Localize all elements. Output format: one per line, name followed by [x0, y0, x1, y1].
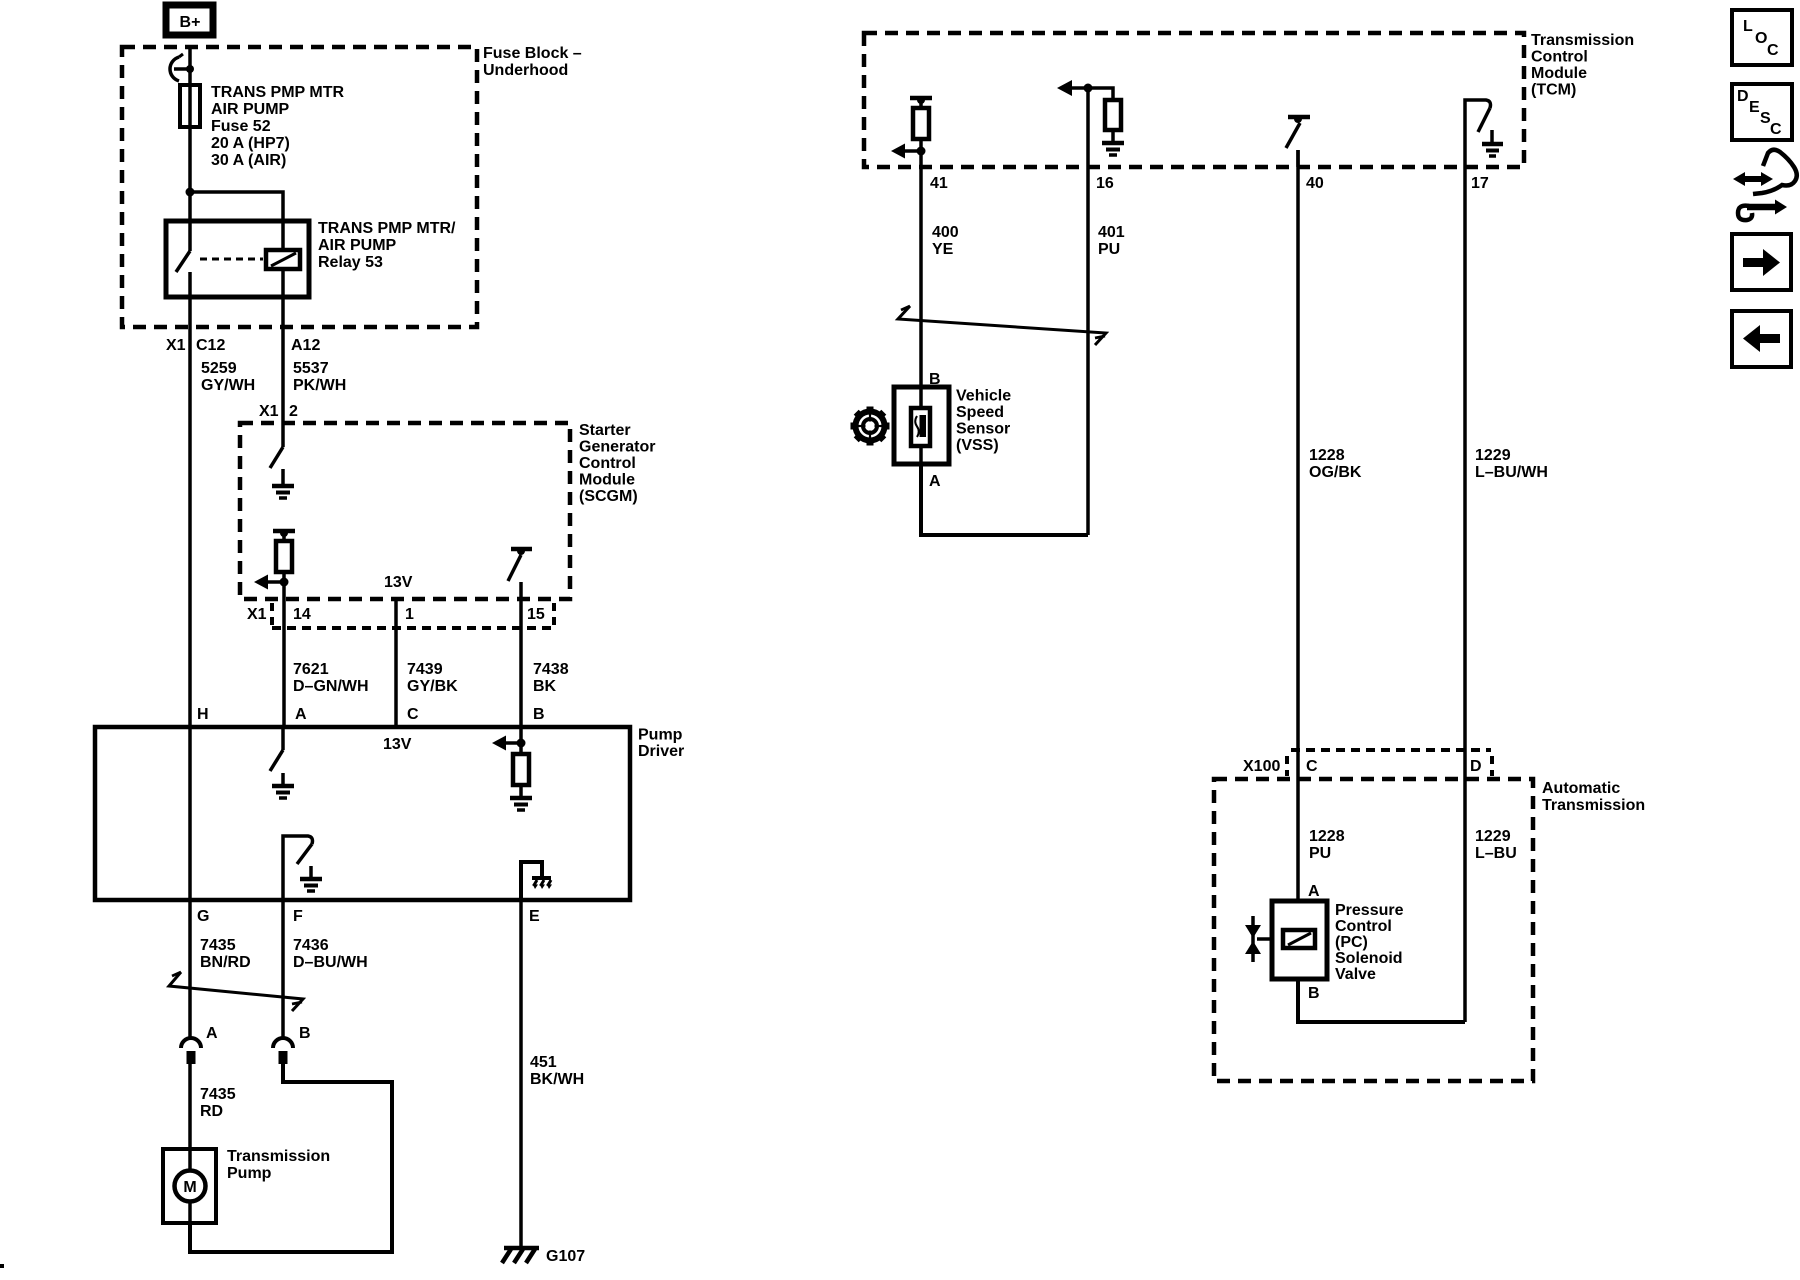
svg-text:Module: Module: [1531, 65, 1587, 82]
svg-text:1: 1: [405, 606, 414, 623]
svg-text:14: 14: [293, 606, 311, 623]
svg-text:7439: 7439: [407, 661, 443, 678]
crossing mark wires G-F: [169, 972, 303, 1011]
fuse block underhood box: [122, 45, 582, 327]
svg-text:Vehicle: Vehicle: [956, 388, 1011, 405]
wire 7436 D-BU/WH: [283, 900, 368, 1037]
svg-text:Control: Control: [579, 455, 636, 472]
pump driver case ground E: [521, 862, 552, 900]
svg-text:GY/WH: GY/WH: [201, 377, 255, 394]
junction node pin41: [917, 147, 926, 156]
svg-text:Fuse 52: Fuse 52: [211, 118, 271, 135]
icon wiring navigation: [1733, 150, 1797, 220]
svg-text:X1: X1: [247, 606, 267, 623]
fusible element clip: [170, 54, 194, 81]
svg-text:F: F: [293, 908, 303, 925]
wire 7435 RD: [190, 1064, 236, 1171]
svg-text:L–BU/WH: L–BU/WH: [1475, 464, 1548, 481]
SCGM 13V source wire: [384, 574, 413, 727]
svg-text:H: H: [197, 706, 209, 723]
svg-text:TRANS PMP MTR/: TRANS PMP MTR/: [318, 220, 456, 237]
TCM resistor pin16: [1105, 100, 1121, 143]
svg-text:E: E: [1749, 99, 1760, 116]
signal arrow SCGM output: [254, 575, 284, 590]
VSS pickup element: [911, 387, 930, 464]
svg-text:B: B: [1308, 985, 1320, 1002]
SCGM box: [240, 422, 655, 599]
ground under switch A: [272, 773, 294, 798]
svg-text:7435: 7435: [200, 937, 236, 954]
svg-text:1228: 1228: [1309, 828, 1345, 845]
wire C12 5259 GY/WH: [166, 297, 255, 727]
wire 7438 BK label: [533, 661, 569, 695]
svg-text:D–BU/WH: D–BU/WH: [293, 954, 368, 971]
icon DESC button: [1732, 84, 1792, 140]
svg-text:X1: X1: [259, 403, 279, 420]
SCGM internal supply bar: [273, 529, 295, 541]
svg-text:Driver: Driver: [638, 743, 684, 760]
svg-text:Automatic: Automatic: [1542, 780, 1620, 797]
resistor SCGM output: [276, 541, 292, 572]
svg-text:Starter: Starter: [579, 422, 631, 439]
svg-text:Relay 53: Relay 53: [318, 254, 383, 271]
svg-text:TRANS PMP MTR: TRANS PMP MTR: [211, 84, 344, 101]
svg-text:D–GN/WH: D–GN/WH: [293, 678, 369, 695]
wire 1229 L-BU/WH: [1465, 167, 1548, 1022]
svg-text:Transmission: Transmission: [1531, 32, 1634, 49]
junction node fuse output: [186, 188, 195, 197]
page mark bottom left: [0, 1264, 4, 1268]
TCM input arrow pin16: [1057, 80, 1113, 101]
solenoid return loop: [1298, 979, 1465, 1022]
svg-text:15: 15: [527, 606, 545, 623]
svg-text:Pump: Pump: [227, 1165, 272, 1182]
svg-text:13V: 13V: [384, 574, 413, 591]
svg-text:1229: 1229: [1475, 828, 1511, 845]
svg-text:AIR PUMP: AIR PUMP: [211, 101, 290, 118]
wire pin40 upper: [1296, 150, 1300, 167]
relay 53 box: [166, 220, 456, 297]
svg-text:Sensor: Sensor: [956, 421, 1010, 438]
svg-text:(SCGM): (SCGM): [579, 488, 638, 505]
inline connector pin B: [273, 1025, 311, 1064]
svg-text:1229: 1229: [1475, 447, 1511, 464]
PC solenoid coil: [1283, 930, 1315, 948]
svg-text:Module: Module: [579, 472, 635, 489]
TCM supply bar pin41: [910, 96, 932, 108]
ground inside SCGM: [272, 469, 294, 498]
ground TCM pin17: [1482, 130, 1503, 156]
svg-text:400: 400: [932, 224, 959, 241]
svg-text:OG/BK: OG/BK: [1309, 464, 1362, 481]
ground G107: [502, 1248, 585, 1265]
svg-text:AIR PUMP: AIR PUMP: [318, 237, 397, 254]
svg-text:41: 41: [930, 175, 948, 192]
wire B+ to relay: [188, 47, 192, 251]
icon next arrow button: [1732, 234, 1791, 290]
svg-text:17: 17: [1471, 175, 1489, 192]
wire branch to relay coil: [190, 192, 283, 251]
svg-text:A: A: [295, 706, 307, 723]
battery feed B+: [166, 5, 213, 35]
svg-text:Transmission: Transmission: [1542, 797, 1645, 814]
wire 7435 BN/RD: [190, 900, 251, 1037]
SCGM connector X1 strip: [247, 603, 554, 628]
inline connector pin A: [181, 1025, 218, 1064]
SCGM switch pin15: [508, 547, 532, 581]
wire 400 YE: [921, 167, 959, 387]
TCM resistor pin41: [913, 108, 929, 167]
pump driver box: [95, 727, 684, 901]
pump driver pins H A C B: [197, 706, 545, 723]
TCM switch pin40: [1286, 115, 1310, 148]
svg-text:C: C: [1770, 121, 1782, 138]
svg-text:O: O: [1755, 30, 1767, 47]
pump driver input B node and arrow: [492, 727, 526, 754]
relay switch contact: [176, 251, 190, 297]
relay actuation dashed link: [200, 258, 263, 261]
svg-text:G: G: [197, 908, 209, 925]
svg-text:2: 2: [289, 403, 298, 420]
svg-text:Speed: Speed: [956, 404, 1004, 421]
svg-text:A: A: [1308, 883, 1320, 900]
svg-text:40: 40: [1306, 175, 1324, 192]
svg-text:7436: 7436: [293, 937, 329, 954]
svg-text:BN/RD: BN/RD: [200, 954, 251, 971]
svg-text:(PC): (PC): [1335, 934, 1368, 951]
svg-text:13V: 13V: [383, 736, 412, 753]
svg-text:Control: Control: [1335, 918, 1392, 935]
svg-text:G107: G107: [546, 1248, 585, 1265]
wire 1228 PU label: [1309, 828, 1345, 862]
wire 1228 OG/BK: [1298, 150, 1362, 901]
svg-text:Solenoid: Solenoid: [1335, 950, 1403, 967]
svg-text:(TCM): (TCM): [1531, 82, 1576, 99]
wire pin15: [519, 582, 523, 727]
wire 401 PU: [1088, 167, 1125, 535]
svg-text:(VSS): (VSS): [956, 437, 999, 454]
svg-text:C: C: [1306, 758, 1318, 775]
svg-text:7621: 7621: [293, 661, 329, 678]
transmission pump box: [163, 1148, 330, 1223]
svg-text:Transmission: Transmission: [227, 1148, 330, 1165]
svg-text:5259: 5259: [201, 360, 237, 377]
signal arrow pin41: [891, 144, 921, 159]
svg-text:B: B: [533, 706, 545, 723]
svg-text:16: 16: [1096, 175, 1114, 192]
TCM switch pin17: [1465, 100, 1491, 167]
svg-text:L–BU: L–BU: [1475, 845, 1517, 862]
svg-text:Generator: Generator: [579, 439, 655, 456]
svg-text:GY/BK: GY/BK: [407, 678, 458, 695]
wire 7621 D-GN/WH label: [293, 661, 369, 695]
svg-text:D: D: [1737, 88, 1749, 105]
icon back arrow button: [1732, 311, 1791, 367]
wire pin16: [1086, 88, 1090, 167]
svg-text:L: L: [1743, 18, 1753, 35]
svg-text:1228: 1228: [1309, 447, 1345, 464]
return loop wire pump to connector B: [190, 1064, 392, 1252]
pump driver switch A: [270, 727, 283, 771]
svg-text:RD: RD: [200, 1103, 223, 1120]
pump driver pass-through wire H-G: [188, 727, 192, 900]
svg-text:C: C: [1767, 42, 1779, 59]
TCM box: [864, 32, 1634, 167]
svg-text:BK/WH: BK/WH: [530, 1071, 584, 1088]
TCM pin numbers: [930, 175, 1489, 192]
svg-text:451: 451: [530, 1054, 557, 1071]
gear icon VSS: [851, 407, 890, 446]
svg-text:BK: BK: [533, 678, 557, 695]
svg-text:X100: X100: [1243, 758, 1280, 775]
crossing mark wires 41-16: [898, 306, 1106, 345]
svg-text:7438: 7438: [533, 661, 569, 678]
svg-text:X1: X1: [166, 337, 186, 354]
svg-text:Fuse Block –: Fuse Block –: [483, 45, 582, 62]
svg-text:B: B: [299, 1025, 311, 1042]
svg-text:A: A: [206, 1025, 218, 1042]
wire A12 5537 PK/WH: [259, 269, 346, 447]
pump driver switch F: [283, 836, 313, 900]
icon LOC button: [1732, 10, 1792, 65]
svg-text:B+: B+: [180, 14, 201, 31]
PC solenoid valve box: [1272, 901, 1404, 983]
svg-text:C: C: [407, 706, 419, 723]
svg-text:5537: 5537: [293, 360, 329, 377]
svg-text:M: M: [183, 1179, 196, 1196]
wire 451 BK/WH: [521, 900, 584, 1248]
svg-text:PU: PU: [1098, 241, 1120, 258]
wire 1229 L-BU label: [1475, 828, 1517, 862]
svg-text:E: E: [529, 908, 540, 925]
svg-text:Pressure: Pressure: [1335, 902, 1404, 919]
SCGM switch to ground: [270, 447, 283, 468]
wire pin14 through resistor: [282, 572, 286, 727]
svg-text:30 A (AIR): 30 A (AIR): [211, 152, 286, 169]
svg-text:A12: A12: [291, 337, 320, 354]
pump driver resistor B: [513, 754, 529, 798]
svg-text:Valve: Valve: [1335, 966, 1376, 983]
svg-text:C12: C12: [196, 337, 225, 354]
ground under resistor B: [510, 798, 532, 810]
motor M: [175, 1171, 206, 1224]
svg-text:PU: PU: [1309, 845, 1331, 862]
junction node pin14: [280, 578, 289, 587]
svg-text:PK/WH: PK/WH: [293, 377, 346, 394]
ground TCM pin16: [1102, 143, 1124, 155]
svg-text:D: D: [1470, 758, 1482, 775]
svg-text:Underhood: Underhood: [483, 62, 568, 79]
automatic transmission box: [1214, 779, 1645, 1081]
VSS box: [894, 387, 1011, 464]
svg-text:Control: Control: [1531, 49, 1588, 66]
wire 7439 GY/BK label: [407, 661, 458, 695]
connector X100 strip: [1243, 750, 1492, 776]
pump driver pins G F E: [197, 908, 540, 925]
svg-text:20 A (HP7): 20 A (HP7): [211, 135, 290, 152]
svg-text:7435: 7435: [200, 1086, 236, 1103]
VSS low reference loop: [921, 464, 1088, 535]
relay coil: [266, 250, 300, 269]
fuse F52 TRANS PMP MTR AIR PUMP: [180, 84, 344, 169]
svg-text:401: 401: [1098, 224, 1125, 241]
svg-text:A: A: [929, 473, 941, 490]
svg-text:Pump: Pump: [638, 727, 683, 744]
valve actuator symbol: [1245, 916, 1272, 962]
svg-text:YE: YE: [932, 241, 954, 258]
ground at switch F: [300, 866, 322, 891]
